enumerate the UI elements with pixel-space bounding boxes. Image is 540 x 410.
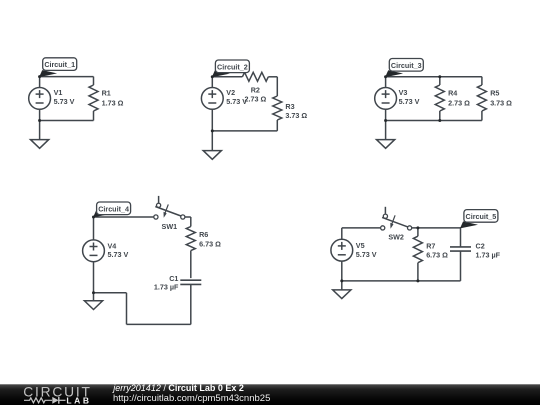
svg-text:LAB: LAB	[66, 395, 91, 405]
svg-text:5.73 V: 5.73 V	[399, 97, 420, 106]
svg-text:5.73 V: 5.73 V	[356, 250, 377, 259]
svg-text:V5: V5	[356, 241, 365, 250]
svg-text:Circuit_4: Circuit_4	[98, 204, 129, 213]
svg-text:C1: C1	[169, 274, 178, 283]
svg-text:R3: R3	[285, 102, 294, 111]
svg-text:2.73 Ω: 2.73 Ω	[244, 95, 266, 104]
svg-text:1.73 Ω: 1.73 Ω	[102, 98, 124, 107]
svg-text:SW1: SW1	[162, 222, 178, 231]
svg-text:V3: V3	[399, 88, 408, 97]
svg-text:5.73 V: 5.73 V	[108, 250, 129, 259]
svg-text:1.73 µF: 1.73 µF	[154, 283, 179, 292]
svg-text:R4: R4	[448, 89, 457, 98]
svg-text:jerry201412 / Circuit Lab 0 Ex: jerry201412 / Circuit Lab 0 Ex 2	[112, 383, 244, 393]
svg-text:V1: V1	[54, 88, 63, 97]
svg-text:Circuit_5: Circuit_5	[466, 212, 497, 221]
svg-text:R6: R6	[199, 230, 208, 239]
svg-text:3.73 Ω: 3.73 Ω	[285, 111, 307, 120]
svg-text:C2: C2	[476, 241, 485, 250]
svg-text:Circuit_2: Circuit_2	[217, 62, 248, 71]
svg-text:http://circuitlab.com/cpm5m43c: http://circuitlab.com/cpm5m43cnnb25	[113, 393, 270, 404]
svg-text:5.73 V: 5.73 V	[54, 97, 75, 106]
svg-text:2.73 Ω: 2.73 Ω	[448, 98, 470, 107]
svg-text:R7: R7	[426, 241, 435, 250]
svg-text:3.73 Ω: 3.73 Ω	[490, 98, 512, 107]
svg-text:V4: V4	[108, 241, 117, 250]
svg-text:R5: R5	[490, 89, 499, 98]
svg-text:Circuit_1: Circuit_1	[44, 60, 75, 69]
svg-text:1.73 µF: 1.73 µF	[476, 251, 501, 260]
svg-text:6.73 Ω: 6.73 Ω	[426, 251, 448, 260]
svg-text:Circuit_3: Circuit_3	[391, 61, 422, 70]
svg-text:SW2: SW2	[388, 233, 404, 242]
svg-text:V2: V2	[226, 88, 235, 97]
svg-text:R1: R1	[102, 89, 111, 98]
svg-text:6.73 Ω: 6.73 Ω	[199, 239, 221, 248]
svg-text:R2: R2	[251, 85, 260, 94]
